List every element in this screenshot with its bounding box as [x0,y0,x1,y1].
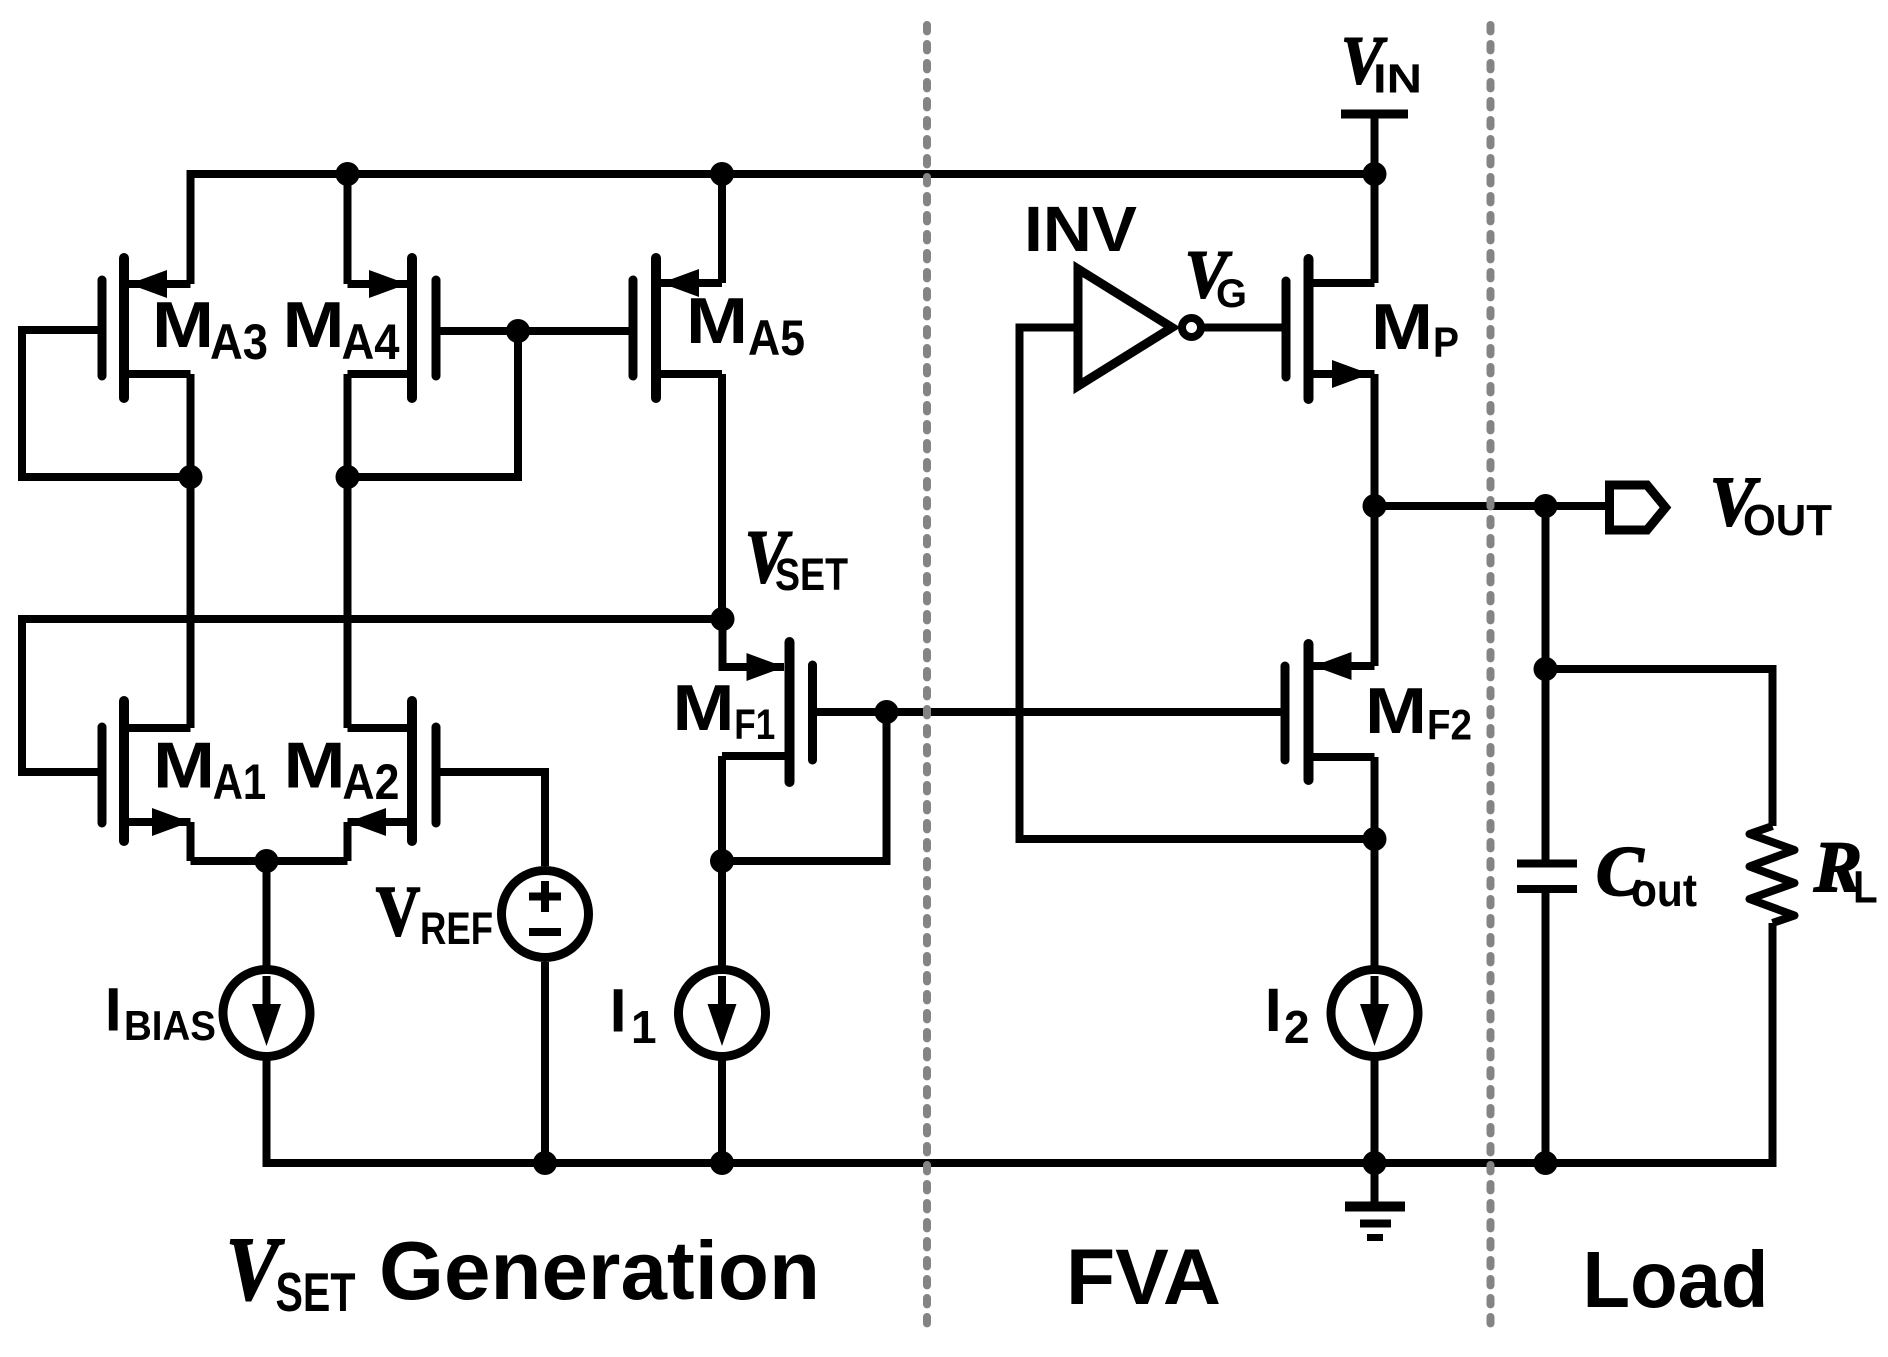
label RL [1813,827,1878,913]
wire INV input from MF2 drain [1020,328,1375,840]
svg-text:G: G [1216,272,1247,316]
wire MP drain to VOUT node [1371,374,1379,506]
label MA5 [686,284,805,366]
label VREF [376,873,493,954]
node junction dot Cout ground [1534,1151,1558,1175]
label VSET [745,516,848,600]
label MF1 [673,671,776,749]
svg-text:Generation: Generation [379,1224,820,1317]
wire MF2 drain down [1371,757,1379,839]
wire VOUT to Cout [1542,506,1550,860]
svg-text:INV: INV [1024,193,1137,265]
wire MF2 drain to I2 [1371,839,1379,966]
svg-text:out: out [1631,864,1697,916]
node junction dot VOUT load [1534,494,1558,518]
wire MA3 drain to MA1 drain [187,374,195,728]
transistor MA3 (PMOS) [102,174,191,398]
svg-text:M: M [152,288,214,361]
transistor MF1 (PMOS) [722,619,813,861]
label VOUT [1710,463,1832,545]
label IBIAS [105,976,216,1049]
label MA3 [152,288,268,370]
svg-text:M: M [686,284,748,357]
wire I2 to ground rail [1371,1060,1379,1163]
svg-text:M: M [1371,290,1433,363]
wire MF1 gate link [813,708,887,716]
capacitor Cout [1517,864,1577,890]
label MF2 [1365,674,1472,750]
node junction dot MA4 drain/gate [336,465,360,489]
node VSET [711,607,735,631]
transistor MA5 (PMOS) [633,174,722,398]
label MA2 [284,729,400,811]
svg-text:SET: SET [276,1261,356,1323]
svg-text:M: M [284,729,346,802]
node junction dot MF2 drain [1363,827,1387,851]
svg-text:A2: A2 [342,754,399,810]
node junction dot MF1 drain [710,849,734,873]
svg-text:F1: F1 [734,701,775,749]
svg-text:2: 2 [1284,1001,1310,1053]
node junction dot I2 ground [1363,1151,1387,1175]
svg-text:A3: A3 [210,314,268,370]
node junction dot Cout/RL link [1534,657,1558,681]
svg-text:BIAS: BIAS [124,1002,216,1049]
wire MA3 gate-drain feedback [22,330,191,477]
output terminal VOUT [1610,485,1666,530]
label section VSET Generation [226,1219,820,1323]
node junction dot MA4/MA5 gate link [506,319,530,343]
power terminal VIN [1341,114,1408,174]
transistor MA4 (PMOS mirrored) [348,174,437,398]
svg-text:I: I [105,976,122,1044]
transistor MF2 (PMOS) [1285,506,1375,780]
wire MA2 gate to VREF [436,772,545,866]
transistor MA1 (NMOS) [102,701,191,861]
svg-text:V: V [376,873,420,951]
wire ground rail [263,1159,1777,1167]
label VG [1185,237,1247,316]
wire MA4 drain to MA2 drain [344,374,352,728]
wire I1 to ground rail [718,1060,726,1163]
label I2 [1265,976,1310,1053]
svg-text:M: M [283,288,345,361]
current source I2 [1331,970,1418,1057]
wire MF1 gate to MF2 gate [887,708,1286,716]
wire Cout to ground rail [1542,893,1550,1163]
svg-text:P: P [1433,319,1459,367]
node junction dot MA3 drain/gate [179,465,203,489]
wire MF1 gate-drain feedback [722,712,887,861]
ground symbol [1345,1163,1405,1238]
svg-text:IN: IN [1373,56,1422,102]
svg-text:F2: F2 [1427,702,1472,750]
svg-text:REF: REF [420,903,493,954]
label MA1 [153,729,266,811]
wire VOUT node to load [1375,502,1606,510]
wire RL to ground rail [1769,923,1777,1163]
wire diff pair common source [191,857,348,865]
label MA4 [283,288,400,370]
wire MF1 drain to I1 [718,861,726,966]
label Cout [1596,833,1697,916]
node junction dot MF1 gate [875,700,899,724]
wire MA4 gate to MA5 gate [436,327,633,335]
svg-text:L: L [1853,862,1878,913]
current source IBIAS [223,970,310,1057]
wire tail to IBIAS [263,861,271,966]
node junction dot top rail / MA4 source [336,162,360,186]
svg-text:M: M [153,729,215,802]
svg-text:A1: A1 [213,754,267,810]
svg-text:I: I [1265,976,1282,1044]
svg-text:FVA: FVA [1066,1232,1221,1321]
label I1 [610,977,657,1053]
wire INV output to MP gate [1201,324,1286,332]
wire IBIAS to ground rail [263,1060,271,1163]
wire VSET to MA1 gate [22,619,723,772]
svg-text:OUT: OUT [1743,496,1832,545]
voltage source VREF [502,871,589,958]
section divider dashed line left [923,25,931,1331]
transistor MA2 (NMOS mirrored) [348,701,437,861]
svg-text:A4: A4 [342,314,400,370]
svg-text:I: I [610,977,627,1045]
node junction dot tail [255,849,279,873]
resistor RL [1750,826,1795,923]
wire link to RL [1546,669,1773,826]
label VIN [1341,23,1422,101]
section divider dashed line right [1487,25,1495,1331]
label MP [1371,290,1459,367]
svg-text:Load: Load [1583,1235,1769,1324]
svg-text:1: 1 [631,1001,657,1053]
wire MA4 gate-drain feedback [348,331,519,477]
node junction dot top rail / MA5 source [710,162,734,186]
wire MA5 drain to VSET node [718,374,726,619]
current source I1 [679,970,766,1057]
node junction dot top rail / VIN [1363,162,1387,186]
wire VREF to ground rail [541,962,549,1163]
svg-text:A5: A5 [748,310,805,366]
node junction dot VREF ground [533,1151,557,1175]
wire VDD top rail [187,170,1375,178]
transistor MP (PMOS pass device) [1286,174,1375,399]
svg-text:SET: SET [775,549,848,600]
inverter INV [1078,269,1201,386]
node junction dot I1 ground [710,1151,734,1175]
svg-text:M: M [1365,674,1427,747]
node VOUT [1363,494,1387,518]
svg-text:M: M [673,671,735,744]
